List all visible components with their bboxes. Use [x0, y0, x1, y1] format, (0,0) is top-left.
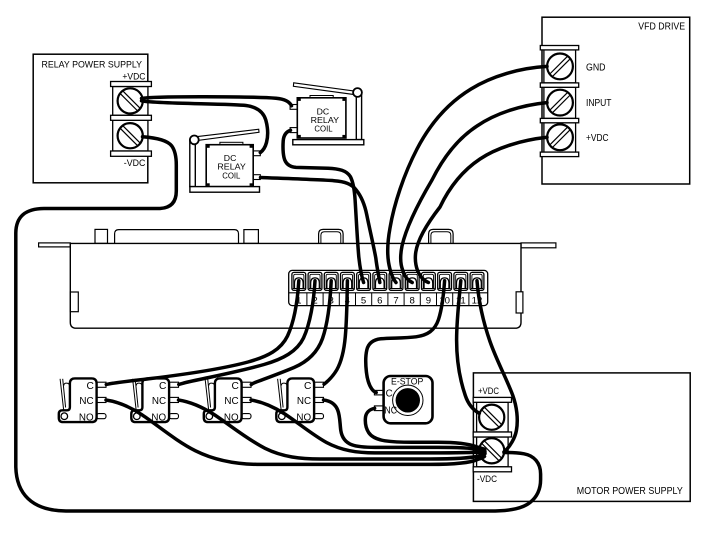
K2 lever arm	[293, 83, 355, 95]
breakout board left mounting flange	[39, 243, 71, 247]
board top connector D inner	[431, 232, 451, 244]
svg-text:6: 6	[377, 295, 382, 306]
terminal 3 cell	[324, 272, 338, 290]
D-sub connector tab B	[244, 230, 259, 244]
svg-text:NC: NC	[384, 405, 397, 416]
terminal 9 cell	[422, 272, 436, 290]
svg-text:7: 7	[393, 295, 398, 306]
E-STOP NC stub	[374, 406, 383, 411]
terminal 10 cell	[438, 272, 452, 290]
relay power supply box	[33, 54, 148, 183]
terminal 4 cell	[341, 272, 355, 290]
relay supply terminal block body	[113, 87, 148, 116]
K1 coil body	[206, 145, 253, 187]
VFD +VDC screw	[547, 124, 573, 150]
VFD drive box	[542, 17, 690, 184]
svg-text:MOTOR POWER SUPPLY: MOTOR POWER SUPPLY	[577, 486, 683, 497]
D-sub connector shell	[115, 230, 239, 244]
terminal 12 cell	[470, 272, 484, 290]
12-position terminal strip outline	[289, 270, 488, 305]
breakout board right mounting flange	[521, 243, 556, 248]
K2 top tab	[310, 96, 333, 98]
E-STOP switch	[374, 376, 432, 423]
limit switch SW4	[276, 378, 323, 423]
svg-text:INPUT: INPUT	[586, 98, 612, 109]
wire terminal 2 to SW2 C	[179, 281, 315, 385]
wire SW2 NC to motor supply -VDC	[179, 400, 486, 459]
wire relay supply -VDC loop to motor supply -VDC	[16, 137, 541, 511]
DC relay coil K2 (right)	[290, 83, 364, 145]
terminal 2 cell	[308, 272, 322, 290]
K1 top tab	[220, 142, 243, 144]
terminal strip number divider line	[289, 292, 488, 294]
K2 coil terminal stubs	[290, 105, 297, 110]
E-STOP button	[396, 388, 420, 412]
terminal strip divider	[468, 293, 470, 306]
wire VFD GND to terminal 7	[388, 66, 547, 282]
wire relay supply +VDC to K2 coil upper terminal	[142, 97, 292, 106]
E-STOP body	[384, 376, 433, 423]
limit switch SW1	[59, 378, 106, 423]
DC relay coil K1 (left)	[190, 129, 260, 192]
wire VFD INPUT to terminal 8	[401, 103, 547, 283]
wire terminal 3 to SW3 C	[251, 281, 331, 385]
terminal 8 cell	[405, 272, 419, 290]
VFD INPUT screw	[547, 90, 573, 116]
motor supply block flanges	[473, 397, 511, 402]
wire terminal 11 to motor supply +VDC	[457, 281, 480, 414]
svg-text:C: C	[386, 388, 393, 399]
terminal strip divider	[452, 293, 454, 306]
VFD terminal block bodies	[544, 50, 576, 83]
relay supply +VDC screw	[118, 88, 143, 113]
terminal 6 cell	[373, 272, 387, 290]
svg-text:COIL: COIL	[222, 170, 240, 180]
K2 base plate	[293, 140, 364, 145]
wire K1 coil to terminal 6	[261, 178, 380, 283]
motor supply +VDC screw	[479, 405, 504, 430]
wire SW1 NC to motor supply -VDC	[106, 400, 485, 464]
wire relay supply +VDC to K1 coil upper terminal	[142, 101, 268, 153]
terminal strip divider	[387, 293, 389, 306]
terminal strip divider	[371, 293, 373, 306]
wire terminal 4 to SW4 C	[324, 281, 347, 384]
terminal 11 cell	[454, 272, 468, 290]
K1 bracket	[190, 140, 196, 187]
svg-text:GND: GND	[586, 62, 606, 73]
K1 lever arm	[196, 129, 259, 140]
motor power supply box	[473, 373, 690, 502]
wire E-STOP NC to motor supply -VDC	[365, 408, 484, 449]
VFD block flanges	[540, 46, 578, 50]
K2 bracket	[356, 93, 361, 140]
svg-text:5: 5	[361, 295, 366, 306]
wire SW4 NC to motor supply -VDC	[324, 400, 485, 450]
D-sub connector tab A	[95, 229, 108, 243]
svg-text:9: 9	[426, 295, 431, 306]
terminal strip divider	[306, 293, 308, 306]
svg-text:RELAY POWER SUPPLY: RELAY POWER SUPPLY	[42, 59, 143, 70]
limit switch SW3	[204, 378, 251, 423]
wire SW3 NC to motor supply -VDC	[251, 400, 485, 453]
K1 base plate	[190, 187, 260, 193]
terminal 7 cell	[389, 272, 403, 290]
K1 pivot	[190, 136, 199, 145]
E-STOP C stub	[374, 390, 383, 395]
K1 coil terminal stubs	[253, 151, 260, 156]
terminal strip divider	[355, 293, 357, 306]
svg-text:-VDC: -VDC	[477, 474, 497, 484]
terminal strip divider	[436, 293, 438, 306]
limit switch SW2	[131, 378, 178, 423]
motor supply -VDC screw	[479, 438, 504, 463]
svg-text:COIL: COIL	[314, 124, 332, 134]
terminal 5 cell	[357, 272, 371, 290]
breakout board body	[70, 243, 521, 328]
relay supply -VDC screw	[118, 123, 143, 148]
relay supply block flanges	[111, 82, 152, 87]
K2 pivot	[353, 88, 362, 97]
wire terminal 10 to E-STOP C	[366, 281, 445, 393]
board top connector C inner	[321, 232, 341, 244]
board right notch	[516, 292, 523, 313]
board left notch	[70, 292, 78, 312]
wire terminal 12 to motor supply -VDC	[477, 281, 517, 452]
wire VFD +VDC to terminal 9	[415, 137, 547, 282]
K2 coil body	[297, 98, 346, 138]
terminal strip divider	[403, 293, 405, 306]
motor supply terminal block bodies	[477, 402, 509, 432]
svg-text:+VDC: +VDC	[586, 133, 609, 144]
VFD GND screw	[547, 54, 573, 80]
svg-text:VFD DRIVE: VFD DRIVE	[638, 22, 685, 33]
terminal 1 cell	[292, 272, 306, 290]
svg-text:-VDC: -VDC	[124, 158, 146, 169]
board top connector C outer	[319, 229, 344, 243]
terminal strip divider	[322, 293, 324, 306]
svg-text:+VDC: +VDC	[478, 386, 499, 396]
board top connector D outer	[429, 229, 454, 243]
terminal strip divider	[419, 293, 421, 306]
terminal strip divider	[338, 293, 340, 306]
svg-text:8: 8	[410, 295, 415, 306]
wire K2 coil to terminal 5	[283, 130, 364, 282]
wire terminal 1 to SW1 C	[106, 281, 298, 385]
E-STOP button ring	[393, 385, 423, 415]
